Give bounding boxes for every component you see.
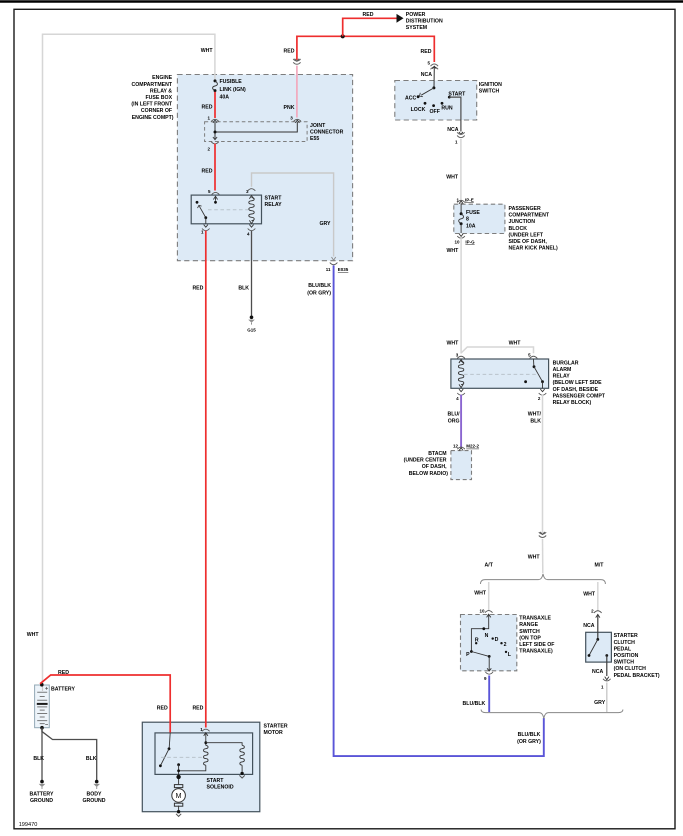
pin 3 burglar relay xyxy=(456,353,465,363)
svg-text:M22-2: M22-2 xyxy=(466,444,479,449)
start relay internals: switch xyxy=(196,196,217,224)
wire WHT battery to fusible link xyxy=(27,34,215,683)
svg-text:M: M xyxy=(176,793,182,800)
pin 2 clutch switch xyxy=(583,609,601,630)
start relay box xyxy=(191,195,282,224)
svg-text:RED: RED xyxy=(192,286,203,292)
pin 2 burglar relay xyxy=(538,389,546,401)
svg-text:RED: RED xyxy=(363,12,374,18)
svg-text:N: N xyxy=(485,633,489,639)
wire WHT junction block to burglar alarm relay xyxy=(446,238,461,354)
wire RED fusible link to joint connector pin 1 xyxy=(202,92,215,118)
svg-text:OFF: OFF xyxy=(430,109,440,115)
svg-text:WHT: WHT xyxy=(509,340,522,346)
start relay internals: mechanical dashed link xyxy=(208,209,248,211)
svg-text:WHT: WHT xyxy=(446,248,459,254)
svg-text:WHT: WHT xyxy=(446,174,459,180)
passenger compartment junction block (dashed) xyxy=(454,204,558,251)
wire BLK battery to body ground xyxy=(42,728,97,781)
svg-text:WHT: WHT xyxy=(474,590,487,596)
svg-text:WHT/BLK: WHT/BLK xyxy=(528,411,542,424)
pin 5 burglar relay xyxy=(528,353,537,359)
svg-text:IGNITIONSWITCH: IGNITIONSWITCH xyxy=(479,82,502,95)
joint connector E55 box (dashed) xyxy=(205,122,344,142)
pin 1 ignition switch xyxy=(447,127,464,144)
ground G15 xyxy=(247,316,256,333)
svg-text:BLU/BLK: BLU/BLK xyxy=(463,701,486,707)
svg-text:R: R xyxy=(475,638,479,644)
starter solenoid internals: mechanical dashed link xyxy=(161,756,203,758)
svg-text:10: 10 xyxy=(454,239,460,244)
svg-text:BATTERY: BATTERY xyxy=(51,687,75,693)
top border bar xyxy=(0,0,683,3)
brace A/T M/T split xyxy=(481,562,606,584)
svg-text:PNK: PNK xyxy=(284,105,295,111)
svg-text:RED: RED xyxy=(202,168,213,174)
starter solenoid internals: battery switch xyxy=(159,733,180,767)
starter clutch pedal position switch box xyxy=(586,632,660,679)
pin 10 transaxle range switch xyxy=(479,609,492,618)
burglar relay internals: coil xyxy=(458,360,463,388)
pin 9 transaxle range switch xyxy=(484,668,493,681)
starter motor box xyxy=(142,722,288,812)
wire RED start relay pin 1 to starter motor pin 1 xyxy=(192,231,205,728)
ground body ground xyxy=(82,780,105,804)
svg-text:NCA: NCA xyxy=(592,669,603,675)
svg-text:WHT: WHT xyxy=(27,632,40,638)
wire WHT M/T branch xyxy=(583,582,598,611)
power distribution system arrow xyxy=(397,12,443,31)
starter solenoid internals: pull-in coil xyxy=(179,733,208,771)
battery xyxy=(35,683,76,728)
svg-text:STARTRELAY: STARTRELAY xyxy=(265,196,283,209)
svg-text:WHT: WHT xyxy=(201,48,214,54)
pin 1 start relay xyxy=(201,225,210,235)
transaxle range switch internals xyxy=(466,614,512,671)
svg-text:IP-G: IP-G xyxy=(465,239,475,244)
node top junction xyxy=(341,34,345,38)
wire WHT A/T branch xyxy=(474,582,489,611)
pin 2 joint connector xyxy=(207,137,218,152)
start solenoid inner box xyxy=(155,733,253,791)
node battery negative xyxy=(40,726,44,730)
svg-text:NCA: NCA xyxy=(583,623,594,629)
wire WHT ignition to junction block xyxy=(446,139,461,201)
inline connector on WHT/BLK wire xyxy=(539,532,546,538)
svg-text:BLK: BLK xyxy=(86,756,97,762)
svg-text:WHT: WHT xyxy=(528,554,541,560)
svg-text:RED: RED xyxy=(284,49,295,55)
svg-text:IP-E: IP-E xyxy=(465,197,474,202)
pin 5 start relay xyxy=(208,189,219,200)
wire BLU/BLK (OR GRY) E035 down-around to bottom brace xyxy=(307,265,544,756)
wire BLK start relay pin 4 to ground G15 xyxy=(238,231,251,317)
pin 3 joint connector xyxy=(290,115,301,123)
start relay internals: coil xyxy=(249,196,254,224)
svg-text:11: 11 xyxy=(326,267,331,272)
svg-text:RED: RED xyxy=(192,705,203,711)
svg-text:2: 2 xyxy=(504,642,507,648)
svg-text:WHT: WHT xyxy=(446,341,459,347)
motor M xyxy=(172,785,186,812)
svg-text:RED: RED xyxy=(421,49,432,55)
pin 5 ignition switch xyxy=(421,61,438,79)
pin 1 joint connector xyxy=(207,116,218,123)
pin 4 burglar relay xyxy=(456,389,465,401)
connector E035 xyxy=(326,263,349,273)
wire WHT branch to burglar relay pin 5 xyxy=(461,340,533,353)
pin 12 BTACM M22-2 xyxy=(453,444,480,451)
inline connector on left red drop xyxy=(293,59,300,65)
clutch switch internals xyxy=(588,638,609,657)
svg-text:BLU/BLK(OR GRY): BLU/BLK(OR GRY) xyxy=(307,283,331,296)
svg-text:GRY: GRY xyxy=(319,221,331,227)
svg-text:START: START xyxy=(448,91,466,97)
svg-text:LOCK: LOCK xyxy=(411,107,426,113)
pin 10 junction block IP-G xyxy=(454,234,475,245)
wire WHT/BLK burglar pin 2 down xyxy=(528,395,543,533)
transaxle range switch box (dashed) xyxy=(461,615,556,671)
svg-text:GRY: GRY xyxy=(594,700,606,706)
wire RED branch to power distribution xyxy=(343,12,398,37)
svg-text:D: D xyxy=(495,637,499,643)
svg-text:BLU/ORG: BLU/ORG xyxy=(447,411,460,424)
svg-text:NCA: NCA xyxy=(447,127,458,133)
wire RED battery to starter solenoid xyxy=(40,670,170,733)
wire ignition pin 5 to pivot xyxy=(433,67,435,88)
svg-text:A/T: A/T xyxy=(485,562,494,568)
ignition switch box (dashed) xyxy=(395,81,502,121)
ignition switch internals xyxy=(405,86,466,115)
svg-text:BLK: BLK xyxy=(238,286,249,292)
svg-text:10: 10 xyxy=(479,609,485,614)
wire solenoid contact to motor xyxy=(176,765,180,785)
ground battery ground xyxy=(30,780,54,804)
wire BLK battery to battery ground xyxy=(33,728,44,781)
svg-text:RED: RED xyxy=(157,705,168,711)
brace bottom merge xyxy=(481,710,623,719)
svg-text:M/T: M/T xyxy=(595,562,605,568)
BTACM box (dashed) xyxy=(404,451,472,480)
pin 4 start relay xyxy=(247,225,255,237)
wire GRY start relay pin 3 to E035 xyxy=(252,173,336,260)
starter solenoid internals: hold-in coil xyxy=(206,743,245,772)
svg-text:BATTERYGROUND: BATTERYGROUND xyxy=(30,791,54,804)
svg-text:G15: G15 xyxy=(247,328,256,333)
pin 1 junction block IP-E xyxy=(456,197,473,204)
wire clutch pin 2 to switch box xyxy=(597,614,599,639)
svg-text:BLK: BLK xyxy=(33,756,44,762)
ground starter motor ground xyxy=(176,810,181,816)
svg-text:12: 12 xyxy=(453,444,459,449)
wire BLU/BLK transaxle pin 9 to brace xyxy=(463,676,490,713)
wire RED joint connector to start relay pin 5 xyxy=(202,144,215,191)
joint connector internal wires xyxy=(214,122,298,139)
svg-text:NCA: NCA xyxy=(421,72,432,78)
svg-text:BLU/BLK(OR GRY): BLU/BLK(OR GRY) xyxy=(517,732,541,745)
pin 3 start relay xyxy=(246,189,255,194)
svg-text:WHT: WHT xyxy=(583,591,596,597)
wire ignition START contact to pin 1 xyxy=(449,97,461,131)
wire PNK to joint connector pin 3 xyxy=(284,66,297,118)
svg-text:P: P xyxy=(466,652,470,658)
engine compartment relay & fuse box (dashed container) xyxy=(131,75,352,261)
svg-text:RED: RED xyxy=(202,105,213,111)
wire BLU/ORG burglar pin 4 to BTACM xyxy=(447,395,461,448)
fusible link (IGN) 40A xyxy=(213,79,246,101)
wire clutch switch to pin 1 xyxy=(606,656,608,677)
wire RED top bus xyxy=(284,36,435,62)
svg-text:RUN: RUN xyxy=(441,106,452,112)
svg-text:RED: RED xyxy=(58,670,69,676)
burglar alarm relay box xyxy=(451,359,607,406)
svg-text:E035: E035 xyxy=(338,267,349,272)
wire GRY clutch pin 1 to brace xyxy=(594,683,607,713)
pin 1 starter motor xyxy=(200,727,209,736)
burglar relay internals: switch xyxy=(524,359,544,388)
pin 1 clutch switch xyxy=(592,669,611,690)
burglar relay internals: mechanical dashed link xyxy=(464,373,538,375)
wire WHT to A/T-M/T brace xyxy=(528,539,543,573)
ground solenoid coil ground xyxy=(239,772,244,778)
svg-text:199470: 199470 xyxy=(19,822,38,828)
svg-text:ACC: ACC xyxy=(405,95,416,101)
fuse 8 10A xyxy=(459,203,481,233)
